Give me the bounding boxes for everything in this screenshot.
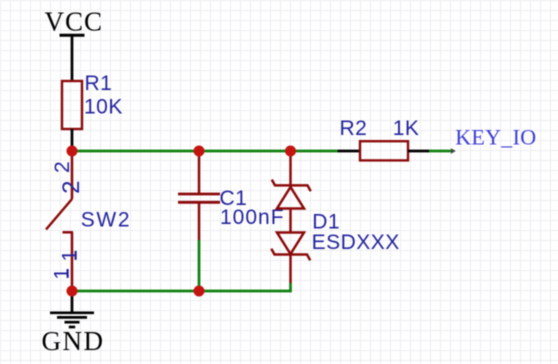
resistor R2 xyxy=(360,141,408,160)
svg-text:D1: D1 xyxy=(312,210,340,233)
svg-text:SW2: SW2 xyxy=(81,209,132,232)
D1 top triangle xyxy=(277,187,304,209)
svg-text:1: 1 xyxy=(50,267,73,279)
pin 2 of D1 xyxy=(289,255,292,284)
wire R1 to node A xyxy=(71,129,74,151)
wire bottom net xyxy=(72,290,199,293)
switch blade xyxy=(46,199,72,230)
diode D1 xyxy=(271,151,310,283)
svg-text:1K: 1K xyxy=(393,117,420,140)
svg-text:KEY_IO: KEY_IO xyxy=(455,125,536,150)
wire end arrow xyxy=(451,148,456,154)
D1 middle link xyxy=(289,209,292,233)
junction node A top xyxy=(67,146,78,157)
C1 top plate xyxy=(178,193,220,196)
power port VCC xyxy=(45,7,104,37)
svg-text:R2: R2 xyxy=(340,117,368,140)
junction C1 bottom xyxy=(194,286,205,297)
svg-text:VCC: VCC xyxy=(45,7,104,37)
pin number 1 (inner) xyxy=(58,249,81,261)
pin 2 of C1 xyxy=(198,202,201,240)
C1 bottom plate xyxy=(178,201,220,204)
capacitor C1 xyxy=(178,151,220,240)
svg-text:1: 1 xyxy=(58,249,81,261)
svg-text:GND: GND xyxy=(42,326,105,356)
junction C1 top xyxy=(194,146,205,157)
wire R2 right stub xyxy=(408,150,429,153)
wire main horizontal net xyxy=(72,150,338,153)
switch contact tick xyxy=(63,231,74,234)
svg-text:2: 2 xyxy=(51,161,74,173)
D1 bottom triangle xyxy=(277,233,304,255)
pin name 1 (outer) xyxy=(50,267,73,279)
switch SW2 xyxy=(46,151,73,291)
D1 bottom cathode bar xyxy=(271,249,310,261)
junction D1 top xyxy=(285,146,296,157)
wire to KEY_IO xyxy=(429,150,452,153)
pin 1 of SW2 xyxy=(71,232,74,291)
resistor R1 xyxy=(62,81,82,129)
wire node A to GND symbol xyxy=(71,291,74,313)
pin 1 of D1 xyxy=(289,151,292,185)
wire D1 to bottom net xyxy=(199,283,291,291)
wire VCC to R1 xyxy=(71,35,74,81)
svg-text:10K: 10K xyxy=(84,96,123,119)
svg-text:2: 2 xyxy=(58,180,85,194)
pin 2 of SW2 xyxy=(71,151,74,199)
svg-text:ESDXXX: ESDXXX xyxy=(312,231,400,254)
pin 1 of C1 xyxy=(198,151,201,194)
svg-text:R1: R1 xyxy=(85,72,113,95)
junction node GND left xyxy=(67,286,78,297)
wire C1 to bottom net xyxy=(198,240,201,291)
power port GND xyxy=(42,313,105,356)
wire R2 left stub xyxy=(338,150,361,153)
D1 top cathode bar xyxy=(272,180,311,192)
